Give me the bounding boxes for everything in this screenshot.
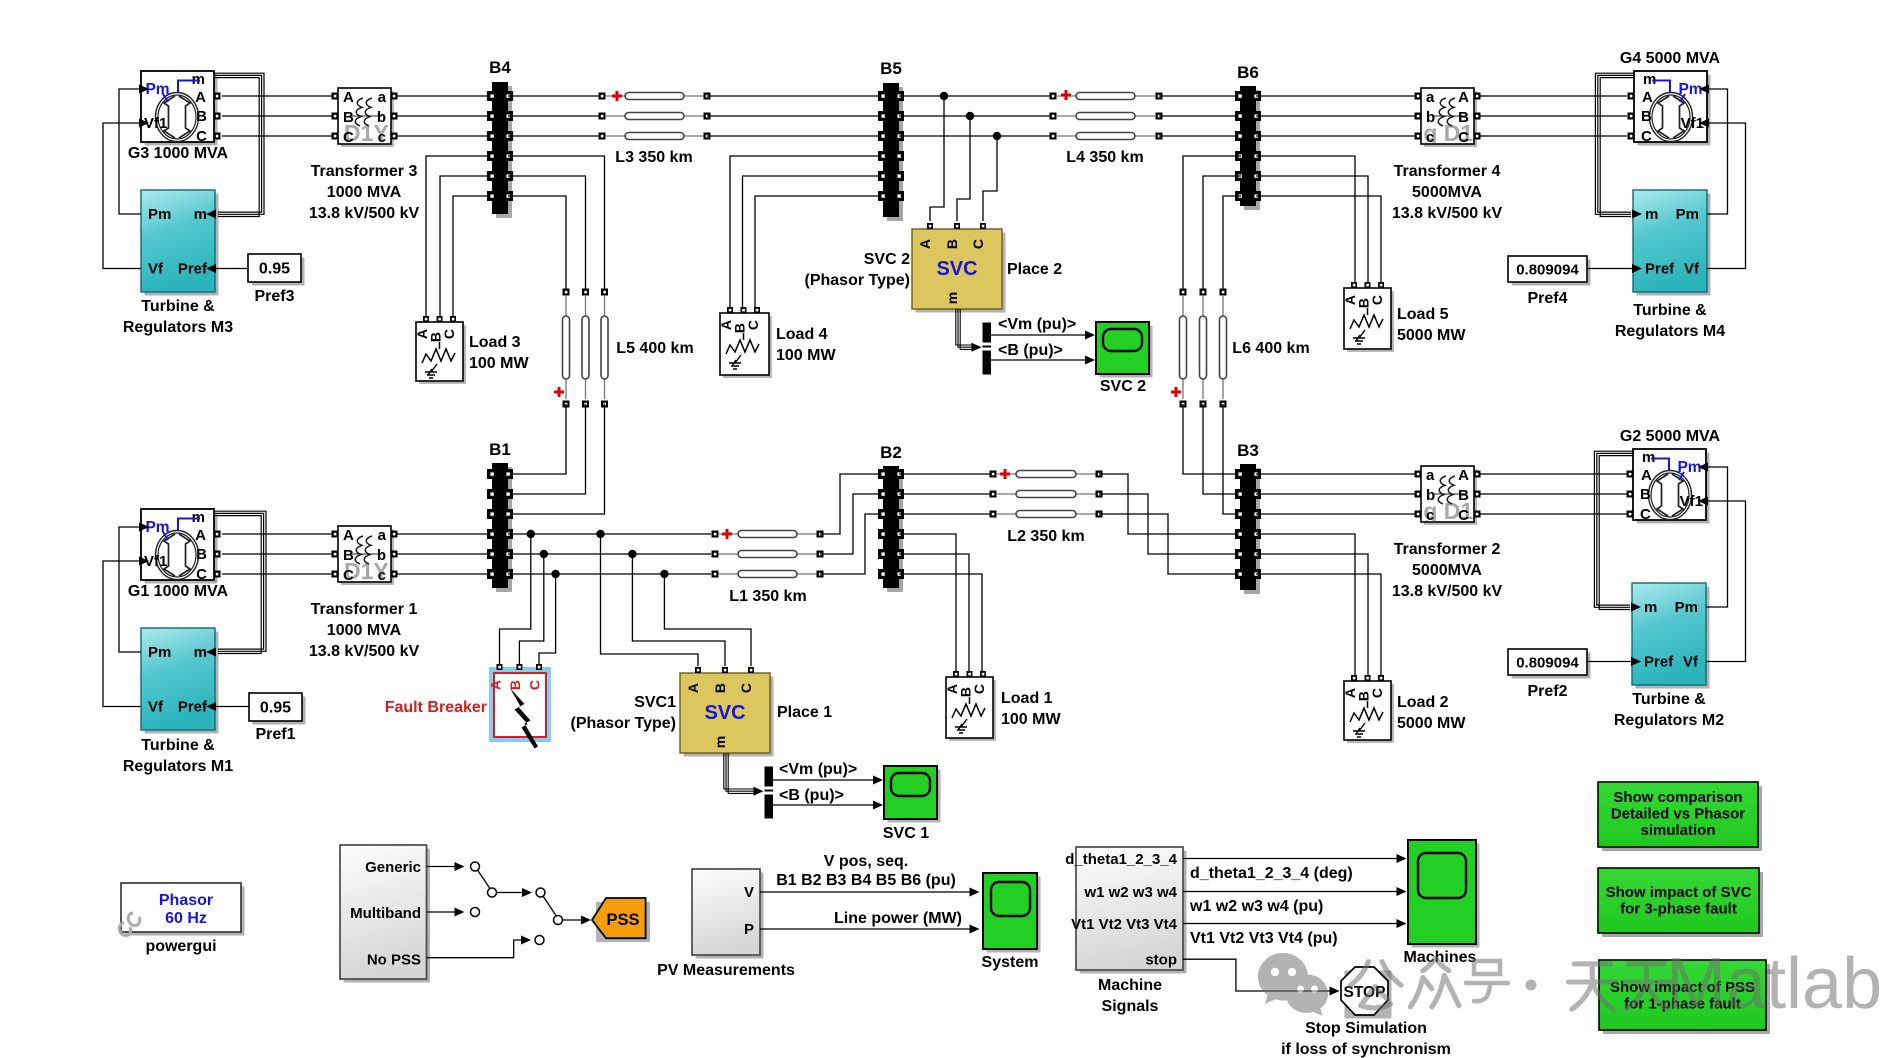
junction node SVC2 tap B <box>966 112 974 120</box>
transmission line L4 350 km phase B <box>1050 113 1163 120</box>
svg-text:Pref: Pref <box>178 699 208 716</box>
wire T4 to G4 phase C <box>1480 135 1627 137</box>
wire B6 to T4 phase C <box>1256 135 1415 137</box>
wire Pref2 to M2 <box>1587 661 1633 663</box>
svg-text:Place 2: Place 2 <box>1007 261 1062 278</box>
wire d_theta to Machines scope <box>1183 854 1407 882</box>
svg-text:Show comparison: Show comparison <box>1613 789 1742 806</box>
wire Multiband to contact <box>427 908 465 917</box>
svg-text:Regulators M3: Regulators M3 <box>123 319 233 336</box>
svg-text:simulation: simulation <box>1640 822 1715 839</box>
svg-text:m: m <box>712 736 728 748</box>
wire B4 to L5 phase C <box>508 196 566 292</box>
wire B3 tap C to Load2 <box>1256 574 1381 676</box>
wire fault tap B <box>519 554 543 664</box>
junction node fault tap C <box>551 570 559 578</box>
svg-text:G3 1000 MVA: G3 1000 MVA <box>128 145 229 162</box>
wire P to System scope <box>760 910 980 934</box>
transmission line L2 350 km phase C <box>990 511 1103 546</box>
switch contact generic b <box>488 888 497 897</box>
svg-text:Pref: Pref <box>1644 654 1674 671</box>
transformer T3 1000 MVA <box>309 88 420 222</box>
svg-text:Stop Simulation: Stop Simulation <box>1305 1020 1427 1037</box>
wire Vf loop M2 to G2 <box>1706 501 1746 662</box>
svg-text:A: A <box>343 89 354 106</box>
wire B3 tap A to Load2 <box>1256 534 1355 676</box>
wire L4 to bus B6 phase B <box>1159 115 1241 117</box>
svg-text:Load 3: Load 3 <box>469 334 521 351</box>
svg-text:A: A <box>488 680 504 690</box>
svg-text:B: B <box>1641 108 1652 125</box>
svg-text:SVC 1: SVC 1 <box>883 825 929 842</box>
transmission line L4 350 km phase A <box>1050 90 1163 100</box>
transmission line L3 350 km phase B <box>599 113 711 120</box>
svg-text:a: a <box>378 89 387 106</box>
svg-text:C: C <box>441 329 457 339</box>
wire G3 phase B to Transformer3 <box>222 115 332 117</box>
svg-text:C: C <box>738 683 754 693</box>
wire Pm loop M2 to G2 <box>1706 467 1728 607</box>
wire G3 phase A to Transformer3 <box>222 95 332 97</box>
svg-text:Vf: Vf <box>148 699 164 716</box>
svg-text:(Phasor Type): (Phasor Type) <box>571 715 677 732</box>
wire B3 tap B to Load2 <box>1256 554 1368 676</box>
svg-text:Turbine &: Turbine & <box>1633 302 1707 319</box>
svg-text:B4: B4 <box>489 58 511 77</box>
svg-text:13.8 kV/500 kV: 13.8 kV/500 kV <box>309 643 420 660</box>
bus B4 <box>487 58 513 218</box>
svg-text:Load 5: Load 5 <box>1397 306 1449 323</box>
scope SVC 1 <box>883 766 941 842</box>
wire G1 phase C to Transformer1 <box>222 573 332 575</box>
svg-text:A: A <box>1641 467 1652 484</box>
svg-text:b: b <box>377 109 386 126</box>
svg-text:C: C <box>1640 506 1651 523</box>
svg-text:0.809094: 0.809094 <box>1516 262 1579 279</box>
svg-text:B: B <box>196 546 207 563</box>
svg-text:m: m <box>194 644 207 661</box>
svg-text:Vt1 Vt2 Vt3 Vt4: Vt1 Vt2 Vt3 Vt4 <box>1071 916 1178 933</box>
synchronous machine G3 1000 MVA <box>128 71 229 162</box>
svg-text:Turbine &: Turbine & <box>141 737 215 754</box>
svg-text:A: A <box>1458 467 1469 484</box>
svg-text:A: A <box>1642 89 1653 106</box>
wire B4 to L3 phase A <box>508 95 602 97</box>
Machine Signals block <box>1065 847 1186 1015</box>
wire B1 to L1 phase A <box>508 533 711 535</box>
wire T2 to G2 phase C <box>1480 513 1627 515</box>
SVC 2 block (Phasor Type) <box>805 223 1063 313</box>
wire B4 tap B to Load3 <box>440 176 489 316</box>
wire L3 to bus B5 phase A <box>707 95 880 97</box>
svg-text:SVC 2: SVC 2 <box>1100 378 1146 395</box>
wire B6 tap B to Load5 <box>1256 176 1368 282</box>
wire Vm signal to scope SVC2 <box>991 316 1095 340</box>
svg-text:Pref1: Pref1 <box>255 726 295 743</box>
svg-text:B: B <box>343 547 354 564</box>
svg-text:Transformer 4: Transformer 4 <box>1394 163 1501 180</box>
svg-text:Pm: Pm <box>145 519 169 536</box>
svg-text:Pm: Pm <box>1677 459 1701 476</box>
svg-text:B5: B5 <box>880 59 902 78</box>
wire T1 phase C to bus B1 <box>397 573 489 575</box>
svg-text:Show impact of SVC: Show impact of SVC <box>1606 884 1752 901</box>
wire B5 tap A to Load4 <box>730 156 880 307</box>
wire T2 to G2 phase B <box>1480 493 1627 495</box>
svg-text:L5 400 km: L5 400 km <box>616 340 693 357</box>
svg-text:L4 350 km: L4 350 km <box>1066 149 1143 166</box>
wire L6 to B3 phase A <box>1183 404 1237 474</box>
switch blade generic <box>478 870 491 889</box>
powergui block <box>119 883 244 955</box>
wire bundle m output G4 to Turbine M4 <box>1595 73 1635 216</box>
wire B2 to L2 phase B <box>899 493 993 495</box>
svg-text:w1 w2 w3 w4: w1 w2 w3 w4 <box>1083 884 1177 901</box>
wire B6 tap C to L6 <box>1223 196 1241 292</box>
svg-text:Phasor: Phasor <box>159 892 213 909</box>
button Show comparison Detailed vs Phasor simulation <box>1598 782 1762 851</box>
svg-text:100 MW: 100 MW <box>469 355 529 372</box>
transmission line L5 400 km phase A <box>554 289 570 408</box>
wire w to Machines scope <box>1183 887 1407 915</box>
svg-text:Transformer 2: Transformer 2 <box>1394 541 1501 558</box>
wire B2 tap A to Load1 <box>899 534 956 671</box>
svg-text:A: A <box>1458 89 1469 106</box>
svg-text:c: c <box>1426 507 1434 524</box>
junction node SVC1 tap A <box>596 530 604 538</box>
svg-text:5000 MW: 5000 MW <box>1397 327 1466 344</box>
svg-text:V: V <box>744 884 754 901</box>
switch contact mid a <box>536 888 545 897</box>
svg-text:PV Measurements: PV Measurements <box>657 962 795 979</box>
svg-text:C: C <box>745 320 761 330</box>
svg-text:Pref2: Pref2 <box>1527 683 1567 700</box>
svg-text:A: A <box>195 527 206 544</box>
transmission line L1 350 km phase C <box>712 571 824 606</box>
svg-text:Multiband: Multiband <box>350 905 421 922</box>
svg-text:<Vm (pu)>: <Vm (pu)> <box>998 316 1076 333</box>
svg-text:Transformer 3: Transformer 3 <box>311 163 418 180</box>
svg-text:b: b <box>1426 109 1435 126</box>
svg-text:B1 B2 B3 B4 B5 B6 (pu): B1 B2 B3 B4 B5 B6 (pu) <box>776 872 956 889</box>
wire B6 tap B to L6 <box>1203 176 1241 292</box>
constant Pref3 0.95 <box>248 254 305 305</box>
svg-text:P: P <box>744 921 754 938</box>
wire B3 to T2 phase A <box>1256 473 1415 475</box>
svg-text:C: C <box>1369 688 1385 698</box>
svg-text:Load 1: Load 1 <box>1001 690 1053 707</box>
svg-text:Detailed vs Phasor: Detailed vs Phasor <box>1611 806 1745 823</box>
svg-text:B: B <box>343 109 354 126</box>
svg-text:if loss of synchronism: if loss of synchronism <box>1281 1041 1451 1058</box>
junction node SVC2 tap C <box>993 132 1001 140</box>
wire V to System scope <box>760 853 980 897</box>
wire switch2 to PSS tag <box>563 916 591 925</box>
svg-text:C: C <box>970 239 986 249</box>
wire L2 to B3 phase B <box>1099 494 1237 554</box>
transmission line L2 350 km phase A <box>990 469 1103 479</box>
wire Vm signal to scope SVC1 <box>773 761 883 785</box>
svg-text:b: b <box>377 547 386 564</box>
wire L6 to B3 phase C <box>1223 404 1237 514</box>
wire B6 to T4 phase A <box>1256 95 1415 97</box>
svg-text:C: C <box>1458 507 1469 524</box>
wire L2 to B3 phase A <box>1099 474 1237 534</box>
wire L2 to B3 phase C <box>1099 514 1237 574</box>
svg-text:C: C <box>1641 128 1652 145</box>
bus selector demux SVC1 <box>765 767 774 819</box>
svg-text:No PSS: No PSS <box>367 952 421 969</box>
STOP block <box>1281 967 1451 1058</box>
wire B5 to L4 phase C <box>899 135 1053 137</box>
wire L3 to bus B5 phase C <box>707 135 880 137</box>
wire T3 phase C to bus B4 <box>397 135 489 137</box>
transformer T2 5000 MVA <box>1392 466 1503 600</box>
wire bundle m output G2 to Turbine M2 <box>1594 451 1634 609</box>
svg-text:1000 MVA: 1000 MVA <box>327 622 402 639</box>
wire B4 tap A to Load3 <box>426 156 489 316</box>
svg-text:0.95: 0.95 <box>259 261 290 278</box>
wire Pm loop M1 to G1 <box>119 527 141 652</box>
svg-text:<Vm (pu)>: <Vm (pu)> <box>779 761 857 778</box>
bus B5 <box>878 59 904 221</box>
svg-text:V pos, seq.: V pos, seq. <box>824 853 908 870</box>
svg-text:Pm: Pm <box>1675 599 1698 616</box>
wire G1 phase A to Transformer1 <box>222 533 332 535</box>
svg-text:5000MVA: 5000MVA <box>1412 184 1482 201</box>
wire T4 to G4 phase B <box>1480 115 1627 117</box>
svg-text:Pm: Pm <box>148 206 171 223</box>
wire Pm loop M4 to G4 <box>1707 89 1728 214</box>
svg-text:m: m <box>1644 599 1657 616</box>
junction node SVC1 tap B <box>628 550 636 558</box>
bus selector demux SVC2 <box>983 323 992 375</box>
wire B1 to L1 phase B <box>508 553 711 555</box>
wire T3 phase A to bus B4 <box>397 95 489 97</box>
PSS goto tag <box>592 898 650 942</box>
wire B signal to scope SVC2 <box>991 342 1095 365</box>
junction node fault tap A <box>527 530 535 538</box>
svg-text:d_theta1_2_3_4: d_theta1_2_3_4 <box>1065 851 1177 868</box>
svg-text:powergui: powergui <box>145 938 216 955</box>
svg-text:C: C <box>343 567 354 584</box>
wire B3 to T2 phase C <box>1256 513 1415 515</box>
svg-text:13.8 kV/500 kV: 13.8 kV/500 kV <box>309 205 420 222</box>
svg-text:Pref: Pref <box>1645 261 1675 278</box>
svg-text:B: B <box>1640 486 1651 503</box>
junction node fault tap B <box>540 550 548 558</box>
scope System <box>982 873 1041 971</box>
bus B3 <box>1235 441 1261 594</box>
junction node SVC1 tap C <box>660 570 668 578</box>
bus B2 <box>878 443 904 592</box>
svg-text:c: c <box>378 129 386 146</box>
turbine & regulators M4 <box>1615 190 1725 340</box>
svg-text:SVC1: SVC1 <box>634 694 676 711</box>
svg-text:Load 4: Load 4 <box>776 326 828 343</box>
svg-text:0.95: 0.95 <box>260 700 291 717</box>
wire Pref4 to M4 <box>1587 268 1634 270</box>
transmission line L1 350 km phase A <box>712 529 824 539</box>
svg-text:Pref4: Pref4 <box>1527 290 1567 307</box>
svg-text:c: c <box>1426 129 1434 146</box>
transmission line L3 350 km phase A <box>599 91 711 101</box>
svg-text:A: A <box>917 239 933 249</box>
svg-text:Matlab: Matlab <box>1666 944 1882 1024</box>
svg-text:60 Hz: 60 Hz <box>165 910 207 927</box>
bus B6 <box>1235 63 1261 210</box>
svg-text:Vf: Vf <box>1683 654 1699 671</box>
svg-text:L3 350 km: L3 350 km <box>615 149 692 166</box>
svg-text:Pref3: Pref3 <box>254 288 294 305</box>
wire fault tap C <box>539 574 556 664</box>
svg-text:B: B <box>507 680 523 690</box>
svg-text:Fault Breaker: Fault Breaker <box>385 699 487 716</box>
wire L1 to B2 phase B <box>820 494 880 554</box>
svg-text:Pm: Pm <box>1678 81 1702 98</box>
svg-text:G1 1000 MVA: G1 1000 MVA <box>128 583 229 600</box>
wire T3 phase B to bus B4 <box>397 115 489 117</box>
transmission line L6 400 km phase C <box>1220 289 1310 408</box>
svg-text:PSS: PSS <box>606 911 639 929</box>
wire G3 phase C to Transformer3 <box>222 135 332 137</box>
svg-text:stop: stop <box>1145 952 1177 969</box>
wire L5 to B1 phase B <box>512 404 586 494</box>
svg-text:Machine: Machine <box>1098 977 1162 994</box>
svg-text:A: A <box>685 683 701 693</box>
wire B2 to L2 phase A <box>899 473 993 475</box>
svg-text:c: c <box>378 567 386 584</box>
svg-text:13.8 kV/500 kV: 13.8 kV/500 kV <box>1392 205 1503 222</box>
svg-text:B: B <box>1458 487 1469 504</box>
svg-text:SVC 2: SVC 2 <box>864 251 910 268</box>
wire SVC2 tap A <box>930 96 944 221</box>
transmission line L1 350 km phase B <box>712 551 824 558</box>
svg-text:B1: B1 <box>489 440 511 459</box>
svg-text:Place 1: Place 1 <box>777 704 832 721</box>
wire L1 to B2 phase C <box>820 514 880 574</box>
wire B6 tap A to Load5 <box>1256 156 1355 282</box>
fault breaker block <box>385 664 551 749</box>
svg-text:C: C <box>196 128 207 145</box>
svg-text:Vf: Vf <box>1684 261 1700 278</box>
svg-text:for 3-phase fault: for 3-phase fault <box>1620 901 1737 918</box>
svg-text:<B (pu)>: <B (pu)> <box>779 787 844 804</box>
load block Load 3 100 MW <box>414 316 529 384</box>
wire bundle m output G3 to Turbine M3 <box>214 73 264 216</box>
wire L6 to B3 phase B <box>1203 404 1237 494</box>
transmission line L5 400 km phase C <box>601 289 694 408</box>
svg-text:Regulators M2: Regulators M2 <box>1614 712 1724 729</box>
svg-text:m: m <box>1645 206 1658 223</box>
svg-text:a: a <box>378 527 387 544</box>
turbine & regulators M1 <box>123 628 233 775</box>
constant Pref2 0.809094 <box>1508 649 1591 700</box>
wire Vf loop M4 to G4 <box>1707 123 1746 269</box>
wire G1 phase B to Transformer1 <box>222 553 332 555</box>
wire fault tap A <box>500 534 531 664</box>
svg-text:C: C <box>527 680 543 690</box>
svg-text:Vf: Vf <box>148 261 164 278</box>
wire B signal to scope SVC1 <box>773 787 883 810</box>
wire B2 tap B to Load1 <box>899 554 969 671</box>
svg-text:A: A <box>343 527 354 544</box>
wire L3 to bus B5 phase B <box>707 115 880 117</box>
svg-text:Pm: Pm <box>1676 206 1699 223</box>
wire B5 tap B to Load4 <box>743 176 881 307</box>
svg-text:L1 350 km: L1 350 km <box>729 588 806 605</box>
wire L1 to B2 phase A <box>820 474 880 534</box>
wire SVC1 tap B <box>632 554 725 666</box>
wire Vf loop M1 to G1 <box>103 561 141 707</box>
svg-text:Generic: Generic <box>365 859 421 876</box>
svg-text:d_theta1_2_3_4 (deg): d_theta1_2_3_4 (deg) <box>1190 865 1353 882</box>
wire L5 to B1 phase C <box>512 404 605 514</box>
wire T2 to G2 phase A <box>1480 473 1627 475</box>
load block Load 5 5000 MW <box>1342 282 1466 352</box>
svg-text:m: m <box>194 206 207 223</box>
PSS selector source block <box>340 845 430 983</box>
svg-text:C: C <box>971 684 987 694</box>
bus B1 <box>487 440 513 592</box>
wire stop to STOP block <box>1183 959 1340 995</box>
wire Vf loop M3 to G3 <box>103 123 141 269</box>
svg-text:G2 5000 MVA: G2 5000 MVA <box>1620 428 1721 445</box>
button Show impact of SVC for 3-phase fault <box>1598 868 1763 937</box>
svg-text:SVC: SVC <box>936 258 977 280</box>
load block Load 2 5000 MW <box>1342 675 1466 743</box>
transformer T4 5000 MVA <box>1392 88 1503 222</box>
watermark wechat logo and text <box>1258 944 1882 1024</box>
transmission line L2 350 km phase B <box>990 491 1103 498</box>
svg-text:0.809094: 0.809094 <box>1516 655 1579 672</box>
constant Pref1 0.95 <box>249 693 306 743</box>
svg-text:B: B <box>712 683 728 693</box>
svg-text:B3: B3 <box>1237 441 1259 460</box>
wire B4 to L5 phase B <box>508 176 586 292</box>
wire B3 to T2 phase B <box>1256 493 1415 495</box>
scope SVC 2 <box>1096 322 1153 395</box>
wire Pm loop M3 to G3 <box>119 89 141 214</box>
wire Pref1 to M1 <box>216 706 249 708</box>
svg-text:L2 350 km: L2 350 km <box>1007 528 1084 545</box>
SVC 1 block (Phasor Type) <box>571 667 833 757</box>
wire B4 to L3 phase B <box>508 115 602 117</box>
svg-text:Signals: Signals <box>1102 998 1159 1015</box>
wire No PSS to contact <box>427 936 531 958</box>
svg-text:a: a <box>1426 467 1435 484</box>
junction node SVC2 tap A <box>940 92 948 100</box>
wire Vt to Machines scope <box>1183 919 1407 947</box>
wire SVC1 tap A <box>601 534 699 666</box>
svg-text:C: C <box>196 566 207 583</box>
turbine & regulators M3 <box>123 190 233 336</box>
wire SVC2 tap B <box>957 116 970 221</box>
svg-text:B: B <box>196 108 207 125</box>
transmission line L6 400 km phase B <box>1200 289 1207 408</box>
svg-text:<B (pu)>: <B (pu)> <box>998 342 1063 359</box>
wire SVC2 tap C <box>983 136 997 221</box>
switch contact nopss <box>535 936 544 945</box>
scope Machines <box>1404 840 1480 966</box>
load block Load 4 100 MW <box>718 307 836 378</box>
svg-text:Vt1 Vt2 Vt3 Vt4 (pu): Vt1 Vt2 Vt3 Vt4 (pu) <box>1190 930 1338 947</box>
wire T1 phase A to bus B1 <box>397 533 489 535</box>
svg-text:System: System <box>982 954 1039 971</box>
svg-text:5000MVA: 5000MVA <box>1412 562 1482 579</box>
wire Generic to switch <box>427 862 465 871</box>
wire bundle m SVC2 to demux <box>956 309 982 352</box>
